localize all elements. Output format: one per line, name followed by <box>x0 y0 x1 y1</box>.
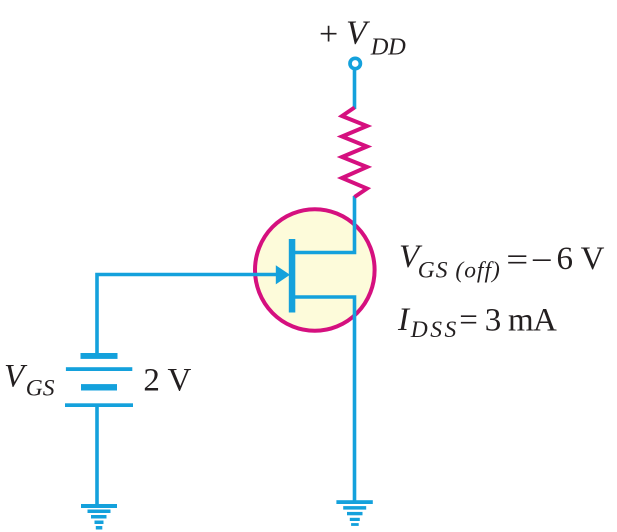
svg-text:DSS: DSS <box>410 317 457 343</box>
svg-text:= 3 mA: = 3 mA <box>459 302 557 338</box>
svg-text:=: = <box>506 243 528 279</box>
svg-text:+: + <box>319 16 338 53</box>
svg-text:I: I <box>397 302 411 338</box>
svg-text:GS: GS <box>26 376 55 402</box>
svg-text:–: – <box>532 240 551 276</box>
svg-text:DD: DD <box>370 34 406 61</box>
svg-text:2 V: 2 V <box>143 362 191 398</box>
svg-text:V: V <box>4 358 28 394</box>
svg-text:6 V: 6 V <box>557 241 605 277</box>
svg-text:GS (off): GS (off) <box>418 257 500 283</box>
svg-text:V: V <box>346 15 371 52</box>
